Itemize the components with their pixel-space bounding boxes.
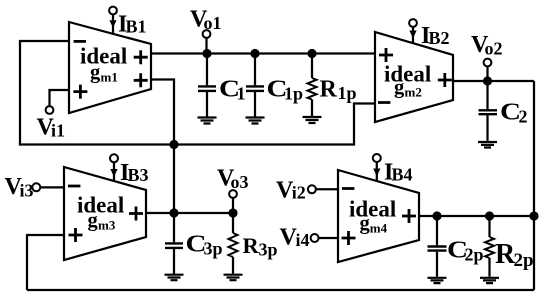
- U1 output plus marker 1: [134, 50, 148, 64]
- resistor R2p: [485, 237, 494, 258]
- label Vi3: [5, 174, 34, 201]
- svg-text:3p: 3p: [204, 239, 223, 259]
- op-amp U2 gm2 body: [375, 32, 453, 122]
- wire Vo3 stub: [232, 199, 234, 214]
- wire gm1 lower output down to gm3 output: [151, 80, 174, 214]
- wire Vi1 to gm1 plus: [50, 90, 70, 106]
- IB3 arrow: [110, 169, 117, 177]
- label Vi1: [37, 115, 66, 141]
- ground of C1p: [246, 118, 265, 124]
- wire R2p branch: [488, 216, 490, 277]
- op-amp U4 gm4 body: [338, 170, 419, 262]
- node right rail junction: [529, 211, 538, 220]
- node Vo1/C1: [202, 49, 211, 58]
- wire feedback gm1 minus to gm2 minus: [20, 41, 375, 145]
- node C1p: [250, 49, 259, 58]
- wire Vi2 to gm4 minus: [317, 188, 339, 190]
- resistor R3p: [229, 233, 238, 257]
- capacitor C1p: [246, 86, 264, 91]
- svg-text:1: 1: [237, 84, 246, 104]
- U4 noninverting input marker: [342, 231, 356, 245]
- wire IB4 stub: [376, 162, 378, 181]
- terminal Vi2: [308, 185, 316, 193]
- ground of R2p: [480, 278, 499, 283]
- svg-text:g: g: [90, 61, 101, 83]
- label R3p: [243, 233, 278, 260]
- svg-text:g: g: [88, 209, 99, 231]
- wire Vo2 stub: [486, 67, 488, 82]
- svg-text:ideal: ideal: [349, 197, 396, 222]
- capacitor C2: [479, 110, 498, 114]
- node C2p: [432, 211, 441, 220]
- label C1p: [267, 77, 304, 104]
- terminal IB3: [110, 154, 118, 162]
- IB2 arrow: [409, 31, 416, 39]
- wire Vo1 stub: [205, 38, 207, 54]
- label IB1: [118, 12, 147, 38]
- label C2: [500, 100, 528, 127]
- svg-text:B1: B1: [126, 17, 147, 37]
- wire Vi4 to gm4 plus: [319, 237, 338, 239]
- svg-text:R: R: [320, 77, 338, 103]
- ground of R3p: [224, 275, 243, 281]
- U2 noninverting input marker: [379, 48, 393, 62]
- wire C1p branch: [254, 54, 256, 118]
- svg-text:B2: B2: [429, 28, 450, 48]
- svg-text:o2: o2: [485, 39, 503, 59]
- wire IB2 stub: [412, 27, 414, 44]
- label C1: [219, 77, 246, 104]
- IB1 arrow: [109, 20, 116, 28]
- svg-text:2p: 2p: [514, 250, 534, 271]
- ground of C3p: [165, 275, 184, 281]
- label C2p: [447, 238, 484, 265]
- U1 noninverting input marker: [73, 85, 87, 99]
- wire C1 branch: [206, 54, 208, 118]
- wire gm3 plus input to bottom rail: [27, 235, 64, 290]
- svg-text:ideal: ideal: [384, 62, 431, 87]
- terminal Vi1: [46, 106, 54, 114]
- IB4 arrow: [373, 169, 380, 177]
- svg-text:m3: m3: [98, 217, 116, 232]
- svg-text:g: g: [394, 77, 405, 99]
- label IB2: [421, 23, 450, 49]
- svg-text:i4: i4: [296, 230, 310, 250]
- ground of C2p: [428, 278, 447, 283]
- svg-text:B3: B3: [128, 165, 149, 185]
- node R2p: [485, 211, 494, 220]
- svg-text:ideal: ideal: [77, 193, 124, 218]
- terminal IB1: [109, 7, 117, 15]
- node R1p: [307, 49, 316, 58]
- U3 output plus marker: [129, 207, 143, 221]
- label Vo3: [217, 166, 249, 193]
- label C3p: [186, 232, 223, 259]
- terminal Vi4: [311, 234, 319, 242]
- terminal IB2: [409, 19, 417, 27]
- node gm3 output / C3p: [169, 208, 178, 217]
- svg-text:2: 2: [519, 107, 528, 127]
- wire Vo1 net horizontal: [151, 52, 375, 54]
- ground of C1: [198, 118, 217, 124]
- U3 noninverting input marker: [69, 228, 83, 242]
- U4 inverting input marker: [342, 187, 354, 190]
- capacitor C2p: [428, 247, 447, 251]
- wire R3p branch: [232, 213, 234, 274]
- svg-text:o1: o1: [204, 13, 222, 33]
- label R1p: [320, 77, 357, 104]
- U2 inverting input marker: [378, 101, 390, 104]
- svg-text:i3: i3: [20, 181, 34, 201]
- svg-text:m1: m1: [101, 70, 118, 85]
- U4 output plus marker: [402, 209, 416, 223]
- U3 inverting input marker: [68, 185, 80, 188]
- wire Vi3 to gm3 minus: [41, 186, 65, 188]
- node Vo2 / C2: [483, 76, 492, 85]
- terminal IB4: [373, 154, 381, 162]
- wire IB1 stub: [112, 15, 114, 34]
- label Vo2: [471, 32, 503, 59]
- svg-text:2p: 2p: [465, 245, 484, 265]
- svg-text:m4: m4: [370, 221, 388, 236]
- wire C2 branch: [486, 81, 488, 141]
- resistor R1p: [308, 78, 317, 100]
- label Vi2: [276, 178, 306, 204]
- wire gm3 output: [146, 212, 233, 214]
- label Vi4: [280, 225, 310, 251]
- U1 inverting input marker: [74, 40, 86, 43]
- node junction dots: [169, 49, 538, 221]
- svg-text:3p: 3p: [259, 240, 278, 260]
- wire C2p branch: [436, 216, 438, 277]
- wire bottom rail: [27, 289, 534, 291]
- svg-text:1p: 1p: [284, 84, 303, 104]
- op-amp U3 gm3 body: [64, 167, 146, 260]
- wire IB3 stub: [113, 163, 115, 182]
- wire R1p branch: [311, 54, 313, 117]
- terminal Vo2: [484, 59, 492, 67]
- label IB4: [384, 160, 413, 186]
- terminal circles: [32, 7, 491, 242]
- wire C3p branch: [173, 213, 175, 274]
- wire gm2 output to right: [453, 80, 534, 82]
- wire right vertical Vo2 down: [533, 81, 535, 290]
- terminal Vi3: [32, 183, 40, 191]
- capacitor C3p: [165, 243, 183, 248]
- label Vo1: [190, 7, 222, 34]
- node feedback junction: [169, 140, 178, 149]
- label R2p: [495, 239, 534, 271]
- svg-text:R: R: [243, 233, 260, 258]
- U1 output plus marker 2: [134, 73, 148, 87]
- svg-text:i2: i2: [292, 183, 306, 203]
- svg-text:B4: B4: [392, 165, 413, 185]
- U2 output plus marker: [438, 73, 452, 87]
- wire gm4 output: [419, 215, 534, 217]
- op-amp U1 gm1 body: [69, 22, 151, 113]
- svg-text:ideal: ideal: [80, 44, 127, 69]
- ground of R1p: [303, 117, 322, 123]
- capacitor C1: [198, 86, 216, 91]
- label IB3: [120, 160, 149, 186]
- svg-text:o3: o3: [231, 172, 249, 192]
- terminal Vo3: [229, 190, 237, 198]
- svg-text:m2: m2: [405, 85, 422, 100]
- node Vo3 / R3p: [228, 208, 237, 217]
- svg-text:1p: 1p: [338, 83, 357, 103]
- terminal Vo1: [203, 30, 211, 38]
- svg-text:i1: i1: [51, 121, 65, 141]
- ground of C2: [478, 142, 497, 148]
